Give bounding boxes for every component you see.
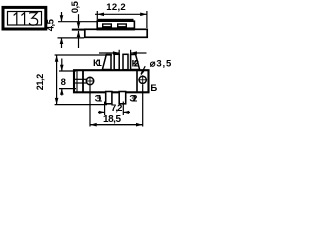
side view: lead row on cap top (98, 19, 134, 21)
dim 12,2 line with arrows (95, 13, 147, 15)
dim 0,5 upper arrow (78, 14, 80, 28)
dim 8 lower outside arrow (61, 89, 63, 96)
svg-text:21,2: 21,2 (35, 74, 45, 91)
svg-text:0,5: 0,5 (70, 0, 81, 13)
dim 21,2 line with arrows (56, 55, 58, 105)
dim 4,5 bottom extension line (58, 37, 85, 39)
svg-text:⌀3,5: ⌀3,5 (150, 59, 172, 70)
svg-text:4,5: 4,5 (45, 18, 56, 31)
side view: extension line top (4,5 upper ref) (58, 21, 97, 23)
dim 0,5 lower arrow (78, 31, 80, 48)
dim 4,5 lower arrow (61, 38, 63, 48)
side view: slot 2 (118, 24, 127, 27)
dim 7,2 left arrow (98, 111, 105, 113)
dim 12,2 extension lines (96, 11, 98, 21)
side view: cap body (97, 21, 134, 28)
side view: slot 1 (103, 24, 112, 27)
bottom view: left mounting hole (86, 77, 93, 84)
top lead 3 (123, 54, 128, 69)
bottom view: inner edge line left 1 (76, 70, 78, 92)
dim 21,2 top extension (55, 54, 112, 56)
svg-text:18,5: 18,5 (103, 114, 121, 125)
bottom lead B (119, 92, 126, 104)
svg-text:8: 8 (61, 77, 66, 88)
svg-text:Э1: Э1 (95, 94, 103, 105)
dim 7,2 extension lines (104, 102, 106, 116)
bottom view: right mounting hole (139, 76, 146, 83)
bottom lead A (106, 92, 112, 104)
side view: thin lip left (72, 29, 86, 31)
dim 18,5 line with arrows (90, 124, 143, 126)
side view: flange plate (85, 29, 147, 37)
dim 8 upper outside arrow (61, 59, 63, 72)
dim 8 bottom extension (59, 88, 76, 90)
bottom view: left slot side lower (74, 82, 89, 84)
top small dim ticks (118, 50, 120, 57)
svg-text:Б: Б (150, 83, 157, 94)
svg-text:12,2: 12,2 (106, 2, 126, 13)
dim 7,2 right arrow (123, 111, 130, 113)
dim 8 top extension (59, 70, 76, 72)
figure number box 113 (3, 7, 46, 29)
side view: fused cap/plate band (97, 28, 136, 31)
top small dim left arrow (99, 52, 119, 54)
top small dim right arrow (131, 52, 147, 54)
hole leader arrow (141, 66, 145, 74)
top lead 4 (flared, K2) (131, 55, 140, 70)
dim 18,5 extension lines (hole centerlines) (89, 86, 91, 127)
bottom view: body outline (74, 70, 149, 92)
bottom view: left slot side upper (74, 78, 89, 80)
svg-text:К2: К2 (132, 59, 139, 70)
top lead 2 (114, 54, 119, 69)
bottom view: inner edge line left 2 (plate edge) (82, 70, 84, 92)
bottom view: inner line right tab (136, 70, 138, 92)
svg-text:7,2: 7,2 (111, 103, 122, 114)
dim 21,2 bottom extension (55, 104, 107, 106)
svg-text:К1: К1 (93, 58, 103, 69)
svg-text:Э2: Э2 (129, 94, 137, 105)
top lead 1 (flared, K1) (102, 55, 111, 70)
dim 4,5 upper arrow (61, 12, 63, 21)
